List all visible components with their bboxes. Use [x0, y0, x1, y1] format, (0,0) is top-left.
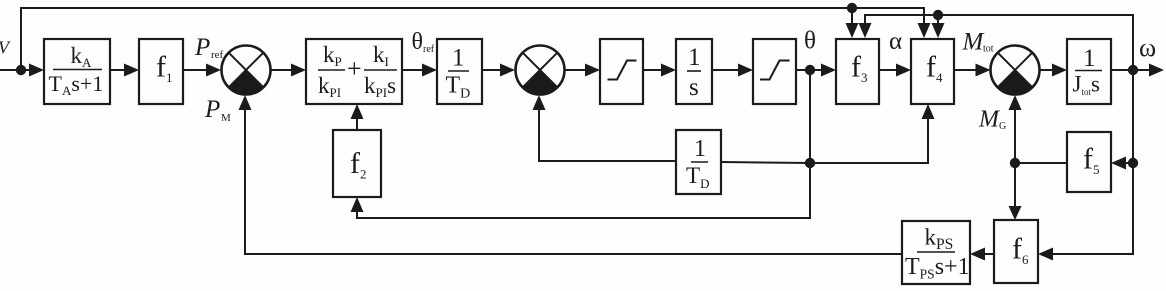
- wire omega down to f5 and f6: [1038, 70, 1133, 261]
- wire f3 to f4: [879, 64, 911, 77]
- wire f6 to kPS block: [970, 248, 994, 261]
- wire f1 to sum1: [183, 64, 221, 77]
- node theta: [805, 65, 815, 75]
- wire omega feedback to f4 and f3: [859, 15, 1134, 70]
- wire theta branch to f4 bottom: [810, 104, 935, 163]
- svg-text:ref: ref: [423, 44, 435, 55]
- wire 1/Jtots to output omega: [1111, 64, 1164, 77]
- block PI controller: [306, 39, 402, 104]
- wire input V: [0, 64, 44, 77]
- wire sum1 to PI block: [271, 64, 307, 77]
- node omega feedback branch to f5: [1128, 158, 1138, 168]
- wire 1/TD feedback to sum2 bottom: [533, 95, 677, 161]
- svg-text:tot: tot: [983, 44, 994, 55]
- label alpha: [889, 28, 902, 55]
- wire f4 to sum3: [954, 64, 991, 77]
- wire block1 to f1: [110, 64, 139, 77]
- node MG branch: [1010, 158, 1020, 168]
- block kA/(TAs+1): [44, 39, 110, 104]
- block 1/TD feedback: [676, 130, 721, 194]
- svg-text:s: s: [689, 74, 699, 101]
- wire kPS feedback to sum1 PM input: [239, 95, 903, 254]
- node theta branch: [805, 158, 815, 168]
- wire theta node down branch: [351, 70, 811, 218]
- block f5: [1067, 132, 1111, 192]
- wire theta branch into 1/TD feedback: [721, 162, 810, 163]
- node omega feedback branch to f4: [933, 10, 943, 20]
- wire PI to 1/TD: [402, 64, 437, 77]
- label theta: [804, 28, 816, 55]
- label V: [0, 38, 11, 58]
- svg-text:TAs+1: TAs+1: [49, 71, 104, 98]
- block f6: [994, 220, 1038, 283]
- wire 1/TD to sum2: [482, 64, 515, 77]
- svg-text:ω: ω: [1139, 33, 1156, 62]
- svg-text:+: +: [347, 54, 362, 83]
- svg-text:M: M: [978, 107, 1001, 133]
- wire saturation1 to integrator: [643, 64, 676, 77]
- svg-text:M: M: [962, 29, 985, 56]
- svg-text:1: 1: [688, 44, 701, 71]
- block f3: [836, 39, 879, 104]
- label Mtot: [962, 29, 994, 56]
- svg-text:TPSs+1: TPSs+1: [905, 254, 970, 282]
- label Pref: [194, 34, 224, 61]
- svg-text:θ: θ: [412, 29, 424, 55]
- svg-text:P: P: [204, 96, 220, 123]
- block saturation2: [753, 39, 796, 104]
- block f1: [139, 39, 183, 104]
- svg-text:1: 1: [694, 136, 706, 162]
- svg-text:ref: ref: [211, 49, 224, 61]
- wire MG up into sum3: [1009, 95, 1022, 163]
- summing junction sum2: [516, 46, 565, 95]
- svg-text:θ: θ: [804, 28, 816, 55]
- wire saturation2 to f3: [796, 64, 836, 77]
- block integrator 1/s: [676, 39, 712, 104]
- summing junction sum1: [222, 46, 271, 95]
- svg-text:M: M: [221, 112, 231, 124]
- label omega: [1139, 33, 1156, 62]
- node omega: [1128, 65, 1138, 75]
- svg-text:1: 1: [1083, 45, 1096, 72]
- wire sum2 to saturation1: [565, 64, 601, 77]
- svg-text:α: α: [889, 28, 902, 55]
- wire integrator to saturation2: [712, 64, 753, 77]
- svg-text:1: 1: [452, 45, 465, 72]
- node V input junction: [16, 65, 26, 75]
- block 1/(Jtot s): [1067, 39, 1111, 104]
- label theta ref: [412, 29, 435, 55]
- wire MG node down into f6: [1009, 163, 1022, 220]
- node top wire branch to f3: [847, 3, 857, 13]
- label PM: [204, 96, 231, 124]
- label MG: [978, 107, 1006, 133]
- summing junction sum3: [991, 46, 1040, 95]
- block 1/TD: [437, 39, 482, 104]
- block saturation1: [600, 39, 643, 104]
- block f2: [333, 130, 381, 197]
- wire top feedforward from V node to f3 and f4: [21, 8, 931, 70]
- block kPS/(TPSs+1): [902, 221, 970, 284]
- block f4: [911, 39, 954, 104]
- svg-text:G: G: [999, 121, 1006, 132]
- svg-text:P: P: [194, 34, 210, 61]
- wire f2 to PI bottom: [351, 104, 364, 130]
- wire f5 to MG node: [1015, 162, 1067, 164]
- wire sum3 to 1/Jtots: [1040, 64, 1068, 77]
